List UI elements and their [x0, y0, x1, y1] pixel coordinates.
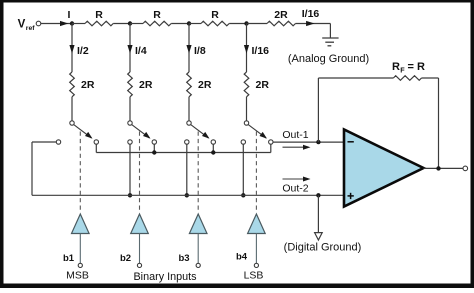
arrow Out-2 direction [283, 178, 307, 180]
analog ground symbol [322, 37, 338, 39]
switch S1 pivot [70, 121, 74, 125]
switch S1 left contact [56, 140, 60, 144]
buffer driver b4 [248, 214, 266, 234]
svg-text:b2: b2 [120, 253, 131, 264]
node 2 junction [128, 21, 132, 25]
svg-text:R: R [392, 61, 400, 73]
svg-text:Out-2: Out-2 [282, 183, 308, 195]
resistor R (3rd) [189, 23, 201, 25]
wire S4 left contact down to Out-2 [242, 144, 244, 195]
current arrow I [60, 21, 69, 26]
wire 2R to switch 4 [246, 97, 248, 121]
switch S3 pivot [187, 121, 191, 125]
node Out-2 ground junction [316, 193, 320, 197]
dashed control line b4 [255, 132, 257, 211]
svg-text:I/4: I/4 [135, 45, 147, 57]
op-amp minus sign [348, 141, 354, 143]
wire S2 left contact down to Out-2 [129, 144, 131, 195]
wire S3 right contact to Out-1 bus [212, 144, 214, 152]
wire feedback vertical right [438, 78, 440, 168]
svg-text:F: F [400, 66, 405, 75]
terminal b2 [137, 263, 141, 267]
wire feedback horizontal [318, 77, 393, 79]
wire buffer b2 input [139, 234, 141, 264]
resistor R (2nd) [130, 23, 143, 25]
wire Out-2 to op-amp non-inverting input [32, 194, 344, 196]
svg-text:2R: 2R [274, 9, 288, 21]
junction on Out-2 [185, 193, 189, 197]
wire S2 right contact to Out-1 bus [153, 144, 155, 152]
node 1 junction [70, 21, 74, 25]
svg-text:(Analog Ground): (Analog Ground) [288, 53, 369, 65]
switch S4 left contact [241, 140, 245, 144]
border frame [0, 0, 474, 3]
svg-text:b3: b3 [178, 253, 189, 264]
junction S2 on bus [152, 150, 156, 154]
switch S1 blade [74, 125, 92, 138]
terminal b1 [78, 263, 82, 267]
svg-text:ref: ref [26, 25, 35, 32]
switch S3 right contact [211, 140, 215, 144]
switch S3 blade [191, 125, 209, 138]
wire branch 1 from node [71, 24, 73, 73]
dashed control line b1 [79, 132, 81, 211]
wire S4 right contact to Out-1 bus [270, 144, 272, 152]
resistor RF [393, 76, 421, 81]
switch S4 right contact [269, 140, 273, 144]
switch S4 pivot [244, 121, 248, 125]
svg-text:R: R [95, 9, 103, 21]
svg-text:I/8: I/8 [194, 45, 206, 57]
svg-text:I/16: I/16 [302, 8, 320, 20]
wire Vref to node1 [41, 23, 72, 25]
arrow Out-1 direction [283, 146, 307, 148]
node 3 junction [187, 21, 191, 25]
resistor 2R branch 2 [128, 72, 133, 97]
junction S3 on bus [211, 150, 215, 154]
resistor R (1st) [72, 23, 85, 25]
wire buffer b1 input [79, 234, 81, 264]
wire S1 left contact to Out-2 [32, 141, 56, 143]
switch S1 right contact [94, 140, 98, 144]
junction on Out-2 [241, 193, 245, 197]
resistor 2R branch 4 [244, 72, 249, 97]
wire to digital ground [317, 195, 319, 232]
Out-1 bus wire [96, 152, 270, 154]
dashed control line b3 [197, 132, 199, 211]
node Out-1 feedback junction [316, 140, 320, 144]
terminal b4 [254, 263, 258, 267]
terminal b3 [196, 263, 200, 267]
svg-text:Binary Inputs: Binary Inputs [133, 271, 197, 283]
wire branch 3 from node [188, 24, 190, 73]
current arrow I/16 [244, 45, 249, 54]
wire buffer b3 input [197, 234, 199, 264]
svg-text:LSB: LSB [244, 270, 264, 282]
wire 2R to switch 3 [188, 97, 190, 121]
current arrow I/4 [127, 45, 132, 54]
wire buffer b4 input [255, 234, 257, 264]
svg-text:2R: 2R [198, 79, 212, 91]
svg-text:= R: = R [408, 61, 425, 73]
svg-text:I/16: I/16 [252, 45, 270, 57]
wire op-amp output [424, 167, 464, 169]
svg-text:b1: b1 [63, 253, 75, 264]
wire Out-1 to op-amp inverting input [273, 141, 344, 143]
svg-text:(Digital Ground): (Digital Ground) [284, 242, 362, 254]
switch S3 left contact [185, 140, 189, 144]
node output junction [436, 166, 440, 170]
svg-text:2R: 2R [139, 79, 153, 91]
current arrow I/16 to ground [306, 21, 315, 26]
wire 2R to switch 1 [71, 97, 73, 121]
resistor 2R branch 1 [70, 72, 75, 97]
svg-text:R: R [211, 9, 219, 21]
wire 2R to switch 2 [129, 97, 131, 121]
digital ground open arrow [315, 233, 323, 240]
svg-text:Out-1: Out-1 [282, 129, 308, 141]
buffer driver b3 [189, 214, 207, 234]
svg-text:R: R [153, 9, 161, 21]
wire feedback vertical left [317, 78, 319, 142]
junction on Out-2 [128, 193, 132, 197]
switch S2 right contact [152, 140, 156, 144]
switch S2 pivot [128, 121, 132, 125]
wire branch 2 from node [129, 24, 131, 73]
wire branch 4 from node [246, 24, 248, 73]
node 4 junction [244, 21, 248, 25]
buffer driver b1 [72, 214, 90, 234]
svg-text:MSB: MSB [66, 270, 89, 282]
wire to analog ground [329, 24, 331, 39]
svg-text:2R: 2R [81, 79, 95, 91]
svg-text:V: V [18, 19, 26, 31]
resistor 2R (terminating) [247, 23, 268, 25]
wire S3 left contact down to Out-2 [186, 144, 188, 195]
switch S2 left contact [128, 140, 132, 144]
node Vref terminal [36, 21, 41, 26]
switch S4 blade [248, 125, 266, 138]
svg-text:I/2: I/2 [77, 45, 89, 57]
buffer driver b2 [131, 214, 149, 234]
dashed control line b2 [139, 132, 141, 211]
wire S1 right contact to Out-1 bus [95, 144, 97, 152]
node output terminal [463, 166, 468, 171]
resistor 2R branch 3 [187, 72, 192, 97]
svg-text:2R: 2R [256, 79, 270, 91]
svg-text:b4: b4 [236, 252, 248, 263]
current arrow I/8 [186, 45, 191, 54]
switch S2 blade [132, 125, 150, 138]
op-amp U1 [344, 130, 424, 207]
current arrow I/2 [69, 45, 74, 54]
op-amp plus sign [348, 195, 354, 197]
svg-text:I: I [68, 9, 71, 21]
